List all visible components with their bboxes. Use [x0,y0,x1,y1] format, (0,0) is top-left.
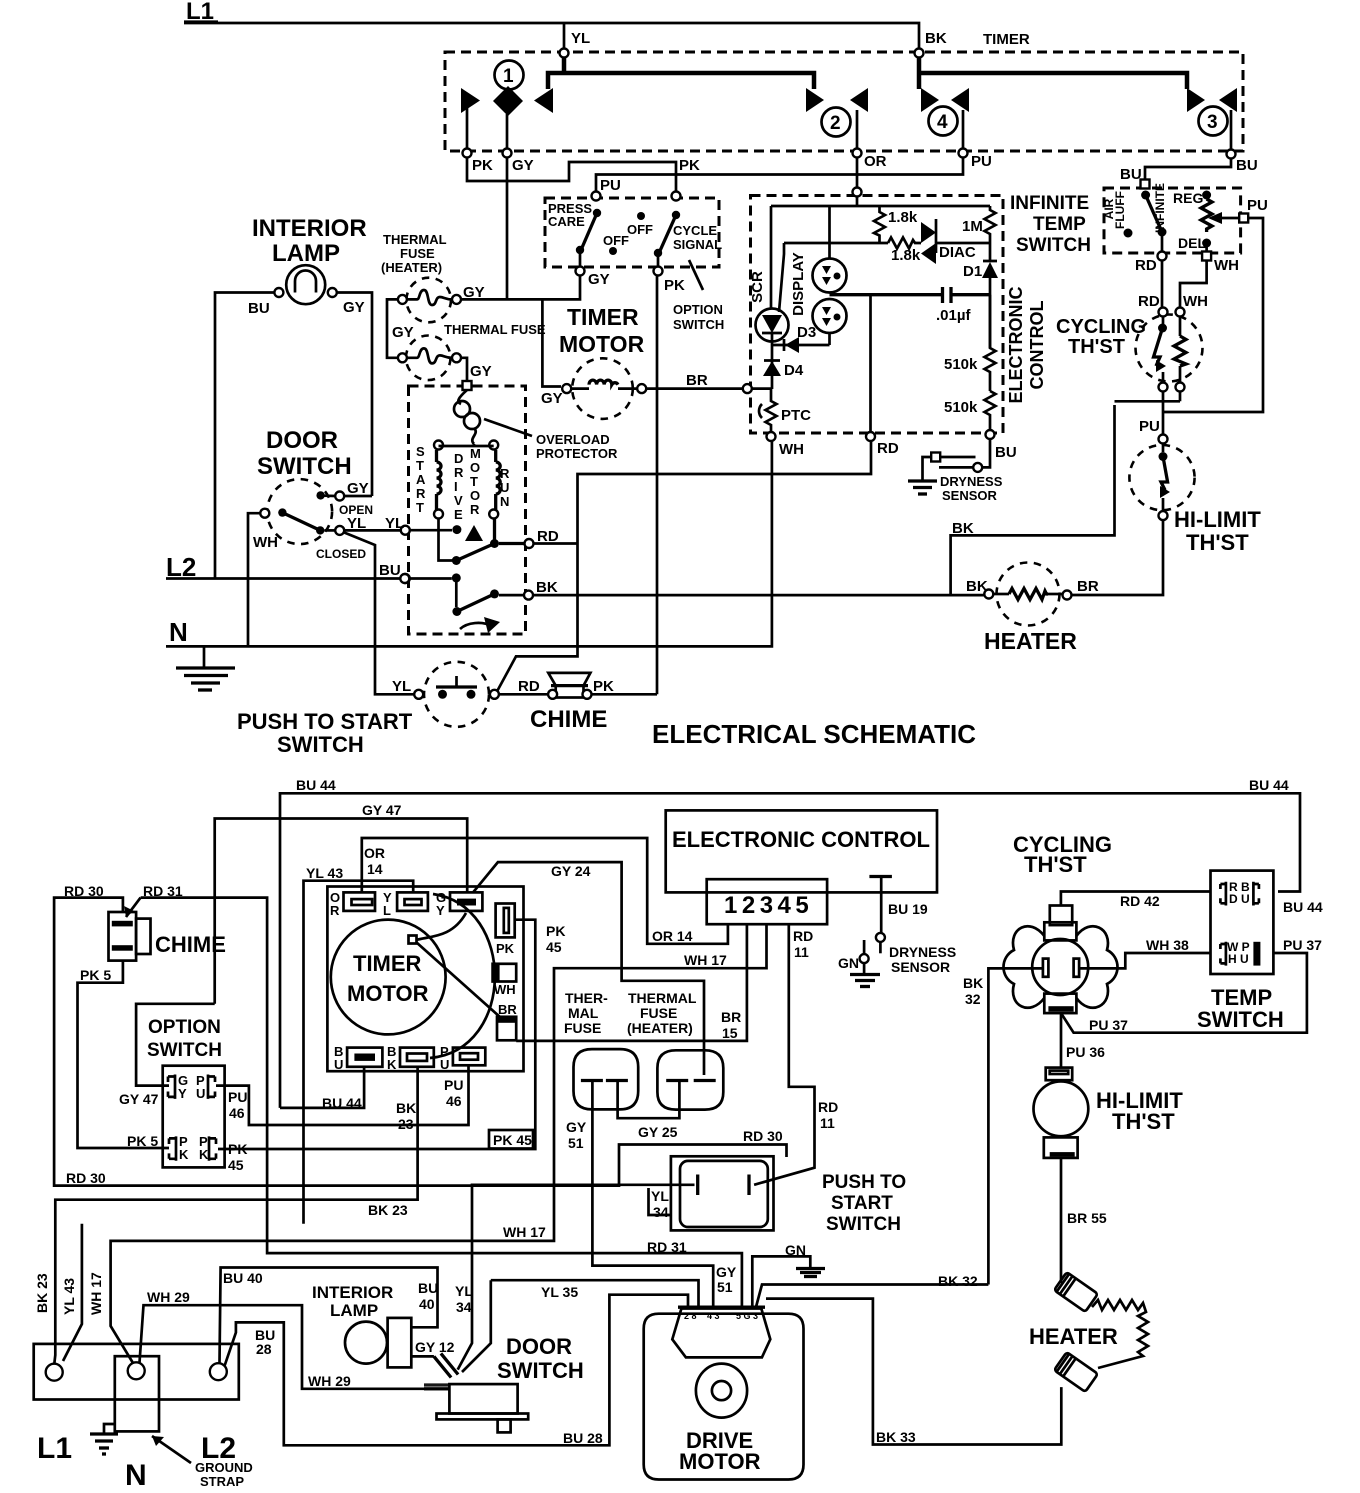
svg-text:RD: RD [518,678,540,695]
svg-text:1.8k: 1.8k [891,247,921,264]
svg-text:GY: GY [512,157,534,174]
svg-text:GY: GY [347,480,369,497]
wire RD net motor to push-start and control [498,441,872,691]
svg-text:CARE: CARE [548,214,585,229]
svg-text:Y: Y [178,1086,187,1101]
electronic control box [666,810,937,892]
svg-text:THERMAL: THERMAL [383,232,447,247]
wire BU timer to infinite switch [1145,158,1231,180]
drive motor shaft [696,1364,747,1418]
svg-text:32: 32 [965,991,981,1007]
svg-text:GY 12: GY 12 [415,1339,455,1355]
svg-text:START: START [831,1193,893,1214]
contact 4 triangles [921,88,939,112]
svg-text:34: 34 [456,1299,472,1315]
svg-text:46: 46 [229,1105,245,1121]
wire BR55 [1060,1158,1063,1283]
svg-text:RD 42: RD 42 [1120,893,1160,909]
svg-text:PU: PU [971,153,992,170]
svg-text:GY: GY [470,363,492,380]
option switch box [163,1066,225,1168]
svg-text:MOTOR: MOTOR [559,331,645,357]
svg-text:GY 25: GY 25 [638,1124,678,1140]
wire PK from timer to cycle-signal switch [467,157,676,192]
wire BK32 into cycling [988,968,1043,1284]
svg-text:RD: RD [793,928,813,944]
display neon 1 [828,206,831,258]
cycling thst (dashed circle) [1136,315,1203,382]
svg-text:BR: BR [498,1002,517,1017]
diac [921,222,936,243]
thermal fuse component 2 [657,1050,723,1109]
svg-text:BK: BK [536,579,558,596]
svg-text:PU: PU [1139,418,1160,435]
svg-text:PU 36: PU 36 [1066,1044,1105,1060]
wire timer bus BK (heavy) [919,57,1187,89]
wire GY12 lamp to door switch [411,1355,434,1358]
terminal N [128,1362,145,1379]
wire WH17 [111,924,767,1363]
wire WH38 cycling to temp switch [1079,953,1210,968]
thermal fuse component 1 [574,1049,639,1109]
svg-text:DISPLAY: DISPLAY [790,252,807,316]
wire BR15 timer BR to control 2 [516,925,747,1041]
wire push-start to chime [499,693,548,696]
heater connector bottom [1054,1352,1098,1392]
svg-text:INTERIOR: INTERIOR [252,215,367,242]
svg-text:5 G 3: 5 G 3 [736,1311,758,1321]
svg-text:INFINITE: INFINITE [1153,183,1167,233]
wire cycling bottom joins [1115,392,1181,436]
svg-text:GY: GY [343,299,365,316]
svg-text:T: T [416,500,424,515]
svg-text:PU: PU [444,1077,463,1093]
wire RD infinite to cycling [1161,261,1164,308]
svg-text:OFF: OFF [627,222,653,237]
svg-text:THERMAL: THERMAL [628,990,697,1006]
ground strap symbol [104,1424,115,1433]
svg-text:RD: RD [877,440,899,457]
svg-text:HI-LIMIT: HI-LIMIT [1174,507,1261,532]
svg-text:2: 2 [830,113,841,134]
wire YL drop [563,23,566,50]
svg-text:L: L [383,903,391,918]
terminal OR on timer [853,149,862,158]
svg-text:DOOR: DOOR [506,1334,572,1359]
svg-text:D3: D3 [797,324,816,341]
wire BU40 [220,1268,438,1364]
svg-text:SENSOR: SENSOR [891,959,950,975]
timer motor box [327,887,523,1072]
potentiometer [1201,199,1212,232]
svg-text:RD: RD [818,1099,838,1115]
svg-text:BU: BU [418,1280,438,1296]
dryness sensor stub in control [869,875,892,878]
svg-text:GY: GY [392,324,414,341]
door switch component [449,1384,517,1413]
svg-text:GY: GY [588,271,610,288]
svg-text:PUSH TO: PUSH TO [822,1172,906,1193]
svg-text:CHIME: CHIME [155,932,226,957]
svg-text:PK: PK [664,277,685,294]
cycle signal switch [672,192,681,201]
svg-text:YL: YL [347,515,366,532]
svg-text:MOTOR: MOTOR [679,1449,761,1474]
wire BU into motor [401,574,410,583]
wire YL into motor [401,526,410,535]
cycling switch arm [1162,317,1165,325]
svg-text:WH 29: WH 29 [147,1289,190,1305]
svg-text:TIMER: TIMER [567,304,639,330]
infinite switch arm [1141,191,1150,200]
heater element zigzag [1092,1300,1148,1368]
wire SCR gate [779,243,784,312]
svg-text:HEATER: HEATER [984,628,1077,654]
svg-text:OPTION: OPTION [673,302,723,317]
wire hi-limit to heater BR [1072,520,1164,595]
svg-text:PK: PK [496,941,515,956]
svg-text:BK 32: BK 32 [938,1273,978,1289]
svg-text:N: N [169,617,188,647]
wire PU36 cycling to hi-limit [1060,1013,1063,1068]
svg-text:PK 45: PK 45 [493,1132,532,1148]
svg-text:SCR: SCR [749,271,766,303]
electronic control box (dashed) [751,196,1004,434]
svg-text:MAL: MAL [568,1005,599,1021]
svg-text:BK 33: BK 33 [876,1429,916,1445]
heater R1 (dashed circle) [997,563,1060,626]
resistor 510k upper [985,295,996,391]
wire GY door to lamp [344,495,372,498]
svg-text:U: U [334,1057,343,1072]
svg-text:510k: 510k [944,399,978,416]
svg-text:K: K [179,1147,189,1162]
wire winding top bus [439,444,494,446]
svg-text:CYCLING: CYCLING [1056,316,1146,338]
svg-text:SWITCH: SWITCH [673,317,724,332]
svg-text:GY 24: GY 24 [551,863,591,879]
wire PK45 [218,920,535,1149]
svg-text:YL: YL [651,1188,669,1204]
svg-text:K: K [199,1147,209,1162]
svg-text:BU: BU [995,444,1017,461]
svg-text:S: S [416,444,425,459]
svg-text:GY: GY [463,284,485,301]
press care / cycle signal dashed box [545,198,719,267]
svg-text:PK 5: PK 5 [80,967,111,983]
wire L2 rail [166,577,401,580]
svg-text:1.8k: 1.8k [888,209,918,226]
svg-text:14: 14 [367,861,383,877]
svg-text:R: R [454,465,464,480]
svg-text:INFINITE: INFINITE [1010,193,1089,214]
svg-text:T: T [470,474,478,489]
svg-text:PK: PK [472,157,493,174]
terminal WH (timer motor) [493,964,517,982]
svg-text:SWITCH: SWITCH [1016,235,1091,256]
svg-text:REG: REG [1173,190,1203,206]
resistor 1.8k vertical [874,206,885,243]
svg-text:STRAP: STRAP [200,1474,244,1489]
svg-text:ELECTRONIC: ELECTRONIC [1006,286,1026,403]
svg-text:45: 45 [546,939,562,955]
svg-text:BU 44: BU 44 [322,1095,362,1111]
motor box (dashed) [409,386,526,634]
drive motor body [644,1314,804,1480]
heater connector top [1054,1272,1098,1312]
terminal PK on timer [463,149,472,158]
svg-text:TH'ST: TH'ST [1186,530,1249,555]
hi-limit thst (dashed circle) [1129,445,1194,510]
wire YL35 [462,1280,699,1372]
wire PU infinite switch right [1164,218,1263,412]
chime component [109,912,137,961]
svg-text:A: A [416,472,426,487]
option switch label with leader [689,260,703,290]
svg-text:BU 44: BU 44 [1283,899,1323,915]
svg-text:PU 37: PU 37 [1089,1017,1128,1033]
wire lamp BU to L2 [215,293,274,579]
svg-text:T: T [416,458,424,473]
contact 2 triangles [806,88,824,112]
svg-text:51: 51 [568,1135,584,1151]
svg-text:BU: BU [379,562,401,579]
wire YL branch to push-start [343,532,414,694]
svg-text:WH: WH [1214,257,1239,274]
svg-text:GY 47: GY 47 [362,802,402,818]
svg-text:RD 30: RD 30 [64,883,104,899]
svg-text:WH 17: WH 17 [684,952,727,968]
terminal BU bottom on control [986,430,995,439]
wire GY from timer down [506,157,509,299]
timer box (dashed) [445,52,1243,151]
terminal PU on timer [959,149,968,158]
svg-text:RD 30: RD 30 [66,1170,106,1186]
svg-text:46: 46 [446,1093,462,1109]
wire timer motor BR to control [646,387,742,390]
svg-text:PU 37: PU 37 [1283,937,1322,953]
terminal WH left on control [743,384,752,393]
svg-text:RD: RD [1138,293,1160,310]
wire PU from press-care to timer PU [596,157,963,192]
wire YL43 into L1 [63,1224,82,1361]
temp switch box [1211,871,1274,974]
resistor 510k lower [985,391,996,430]
svg-text:BK: BK [396,1100,416,1116]
svg-text:ELECTRONIC CONTROL: ELECTRONIC CONTROL [672,827,930,852]
svg-text:2 8: 2 8 [684,1311,697,1321]
svg-text:BU 28: BU 28 [563,1430,603,1446]
svg-text:H U: H U [1228,952,1249,966]
timer cam 3 (circled) [1199,107,1228,136]
svg-text:51: 51 [717,1279,733,1295]
svg-text:40: 40 [419,1296,435,1312]
wire BU28 [225,1295,689,1446]
svg-text:R: R [330,903,340,918]
svg-text:BR: BR [1077,578,1099,595]
wire GY net below fuses [461,276,580,387]
wire PK chime riser [656,276,659,695]
svg-text:SWITCH: SWITCH [257,453,352,480]
svg-text:45: 45 [228,1157,244,1173]
svg-text:DOOR: DOOR [266,427,338,454]
wire BK23 [54,1067,417,1363]
timer motor M1 [572,358,633,419]
svg-text:BU 44: BU 44 [1249,777,1289,793]
control terminal strip [707,879,827,924]
push to start switch S2 [424,662,489,727]
svg-text:PUSH TO START: PUSH TO START [237,709,413,734]
press care switch [592,192,601,201]
wire BK32 to drive motor [756,1285,988,1308]
wire control top bus [771,197,990,207]
wire lamp GY to door switch [337,293,372,497]
wire RD31 with arrow [141,898,742,1307]
svg-text:11: 11 [820,1115,835,1131]
svg-text:RD: RD [1135,257,1157,274]
svg-text:OVERLOAD: OVERLOAD [536,432,610,447]
wire WH29 [140,1305,450,1389]
svg-text:1: 1 [503,66,514,87]
svg-text:WH: WH [494,982,516,997]
dryness sensor [982,439,990,467]
svg-text:O: O [470,488,480,503]
overload protector squiggle [458,390,467,404]
wire OR from timer down into control [856,157,859,188]
terminal L2 [210,1363,227,1380]
svg-text:TIMER: TIMER [353,951,422,976]
svg-text:GY: GY [541,390,563,407]
svg-text:(HEATER): (HEATER) [381,260,442,275]
wire GY51 [592,1082,713,1307]
svg-text:TH'ST: TH'ST [1024,852,1087,877]
svg-text:BK: BK [952,520,974,537]
svg-text:L1: L1 [37,1432,72,1465]
drive motor plug [672,1309,770,1358]
svg-text:N: N [125,1459,147,1492]
svg-text:DIAC: DIAC [939,244,976,261]
svg-text:BK 23: BK 23 [368,1202,408,1218]
svg-text:BK: BK [963,975,983,991]
svg-text:FUSE: FUSE [564,1020,601,1036]
wire RD11 [754,924,814,1185]
svg-text:SWITCH: SWITCH [1197,1007,1284,1032]
svg-text:R: R [470,502,480,517]
wire GY47 lower leg to option switch [136,1004,215,1086]
svg-text:PU: PU [1247,197,1268,214]
svg-text:28: 28 [256,1341,272,1357]
SCR Q1 [770,206,773,309]
svg-text:WH 38: WH 38 [1146,937,1189,953]
svg-text:D: D [454,451,463,466]
svg-text:SWITCH: SWITCH [147,1040,222,1061]
svg-text:SENSOR: SENSOR [942,488,998,503]
svg-text:PK: PK [679,157,700,174]
svg-text:BU 44: BU 44 [296,777,336,793]
terminal RD bottom on control [866,432,875,441]
svg-text:510k: 510k [944,356,978,373]
wire GY25 fuse link [618,1082,680,1118]
timer motor face [331,920,446,1035]
svg-text:RD 30: RD 30 [743,1128,783,1144]
wire OR14 [362,838,728,944]
overload protector label and leader [484,419,532,436]
svg-text:U: U [196,1086,205,1101]
wire WH door to N [248,513,260,646]
svg-text:CLOSED: CLOSED [316,547,366,561]
svg-text:R: R [416,486,426,501]
svg-text:SIGNAL: SIGNAL [673,237,722,252]
svg-text:BU: BU [1236,157,1258,174]
display neon 2 [813,299,847,333]
svg-text:GY: GY [716,1264,737,1280]
interior lamp bulb (bottom) [345,1322,387,1364]
terminal OR into control [853,188,862,197]
door switch arm [260,509,269,518]
svg-text:YL 35: YL 35 [541,1284,578,1300]
door switch S1 (dashed circle) [267,479,332,544]
centrifugal switch upper [439,519,453,561]
chime SP1 [548,673,590,686]
svg-text:YL 43: YL 43 [306,865,343,881]
svg-text:RD 31: RD 31 [143,883,183,899]
diode D3 [772,339,830,351]
svg-text:PK: PK [228,1141,247,1157]
svg-text:M: M [470,446,481,461]
timer motor pointer curves [416,913,466,940]
svg-text:GN: GN [838,955,859,971]
svg-text:CYCLE: CYCLE [673,223,717,238]
svg-text:Y: Y [436,903,445,918]
svg-text:FUSE: FUSE [400,246,435,261]
svg-text:INTERIOR: INTERIOR [312,1283,393,1302]
svg-text:15: 15 [722,1025,738,1041]
resistor 1.8k horizontal [784,238,921,249]
svg-text:WH: WH [1183,293,1208,310]
cycling heater resistor [1179,317,1182,337]
svg-text:ELECTRICAL SCHEMATIC: ELECTRICAL SCHEMATIC [652,719,976,749]
svg-text:1M: 1M [962,218,983,235]
wire WH infinite to cycling [1180,261,1207,308]
svg-text:4 3: 4 3 [707,1311,720,1321]
svg-text:V: V [454,493,463,508]
thermal fuse F2 [406,336,451,381]
wire YL43 riser [304,881,414,1224]
svg-text:TH'ST: TH'ST [1112,1109,1175,1134]
wire fuse link left [387,299,398,357]
svg-text:34: 34 [653,1204,669,1220]
PTC resistor [766,389,777,432]
svg-text:WH: WH [253,534,278,551]
svg-text:I: I [454,479,458,494]
svg-text:WH 17: WH 17 [88,1272,104,1315]
svg-text:PK 5: PK 5 [127,1133,158,1149]
svg-text:BU 19: BU 19 [888,901,928,917]
svg-text:SWITCH: SWITCH [826,1214,901,1235]
svg-text:PK: PK [593,678,614,695]
timer cam 4 (circled) [929,107,958,136]
svg-text:GROUND: GROUND [195,1460,253,1475]
svg-text:YL: YL [392,678,411,695]
wire RD out of motor [499,542,524,545]
svg-text:GY 47: GY 47 [119,1091,159,1107]
svg-text:OR 14: OR 14 [652,928,693,944]
wire RD42 [1061,892,1211,906]
svg-text:PROTECTOR: PROTECTOR [536,446,618,461]
svg-text:PK: PK [546,923,565,939]
svg-text:4: 4 [937,112,948,133]
svg-text:YL: YL [571,30,590,47]
